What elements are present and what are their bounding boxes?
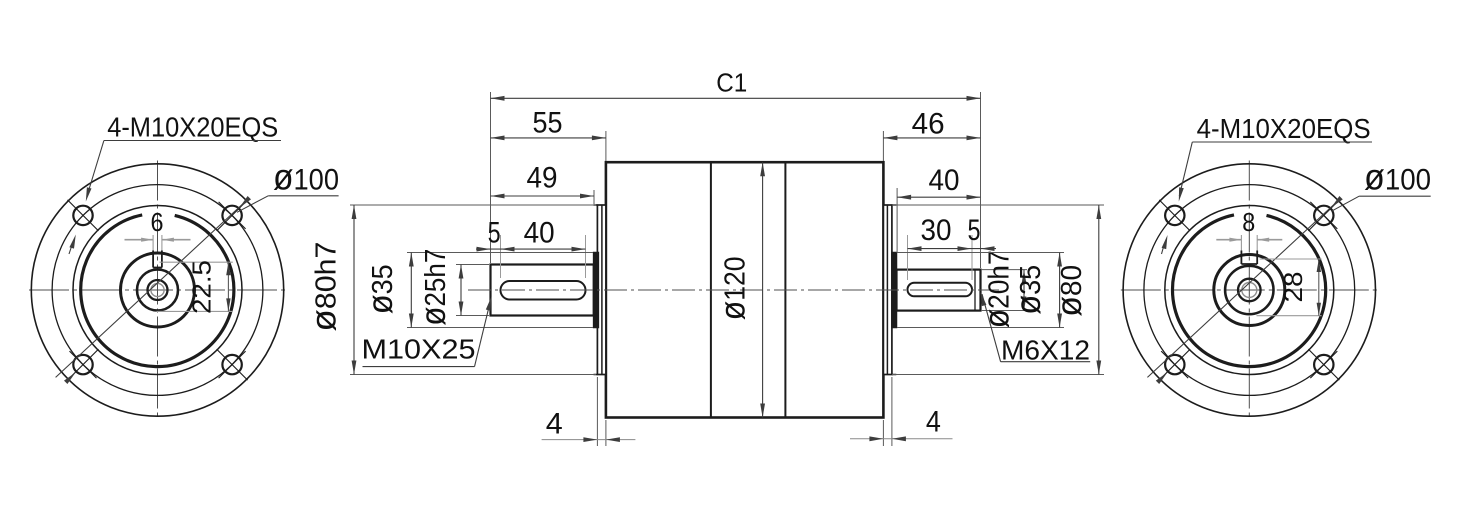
svg-text:4-M10X20EQS: 4-M10X20EQS xyxy=(107,112,278,143)
thick housing arc xyxy=(81,215,234,367)
svg-text:ø35: ø35 xyxy=(361,264,400,314)
ø100 leader R xyxy=(1332,196,1360,211)
flange view centerlines xyxy=(1121,289,1378,291)
ø100 bolt-circle diagonal dimension line (45 deg) xyxy=(1147,200,1338,377)
svg-text:4-M10X20EQS: 4-M10X20EQS xyxy=(1197,113,1371,144)
right flange ring (4mm) xyxy=(883,205,892,375)
left shaft keyway xyxy=(501,281,586,300)
right shaft chamfer line xyxy=(974,270,976,311)
M10X25 leader xyxy=(475,299,492,367)
ext keyway left end xyxy=(500,235,502,278)
ext line right shaft end xyxy=(980,92,982,268)
bolt hole lower-right xyxy=(222,355,241,374)
center tapped hole minor xyxy=(151,283,164,296)
bolt circle ø100 xyxy=(1144,185,1355,396)
small arrow below upper-left hole R xyxy=(1162,245,1165,254)
dimension ø80h7 xyxy=(350,204,596,206)
svg-text:8: 8 xyxy=(1242,207,1255,237)
ø100 leader xyxy=(237,196,268,213)
right shaft keyway xyxy=(908,283,973,297)
flange outer circle xyxy=(31,164,283,416)
right ring top lip xyxy=(892,204,896,206)
bolt hole upper-left center ticks xyxy=(1159,200,1190,231)
bolt hole lower-right center ticks xyxy=(217,349,248,380)
bolt hole lower-right xyxy=(1314,355,1333,374)
center tapped hole xyxy=(1238,279,1261,302)
dimension ø20h7 xyxy=(981,269,1027,271)
svg-text:28: 28 xyxy=(1278,272,1308,303)
left ring bottom lip xyxy=(594,374,598,376)
svg-text:C1: C1 xyxy=(716,68,747,98)
ext line left ring face xyxy=(593,190,595,204)
right shaft ø20h7 xyxy=(897,270,981,311)
label underline R xyxy=(1192,141,1372,143)
dimension C1 xyxy=(491,97,981,99)
svg-text:ø100: ø100 xyxy=(1364,157,1431,198)
label leader xyxy=(87,141,104,197)
bolt hole lower-left center ticks xyxy=(1159,349,1190,380)
small arrow below upper-left hole xyxy=(69,245,72,254)
keyway depth dimension 22.5 xyxy=(160,261,233,263)
bolt hole upper-right center ticks xyxy=(217,200,248,231)
dimension ø80 right xyxy=(892,204,1104,206)
M6X12 underline xyxy=(1001,361,1091,363)
dimension 49 xyxy=(491,195,595,197)
center tapped hole xyxy=(148,280,168,300)
keyway slot (end view) xyxy=(152,235,154,267)
bolt hole upper-right center ticks xyxy=(1308,200,1339,231)
right ring inner line xyxy=(886,205,888,375)
svg-text:ø20h7: ø20h7 xyxy=(978,250,1017,328)
left ring inner line xyxy=(601,205,603,375)
shaft circle xyxy=(137,270,178,311)
keyway slot (end view) xyxy=(1240,235,1242,263)
svg-text:ø25h7: ø25h7 xyxy=(414,249,453,326)
label underline xyxy=(104,140,281,142)
dimension ø120 xyxy=(762,162,764,417)
bolt hole upper-left xyxy=(73,206,92,225)
center tapped hole minor xyxy=(1242,283,1257,298)
label leader R xyxy=(1179,142,1192,196)
body joint line 1 xyxy=(710,162,712,417)
shaft circle xyxy=(1225,266,1273,314)
bolt hole lower-left center ticks xyxy=(68,349,99,380)
ext keyway right end R xyxy=(971,235,973,280)
dimension ø35 right xyxy=(897,252,1064,254)
svg-text:40: 40 xyxy=(524,217,555,250)
dimension ø35 left xyxy=(407,252,593,254)
left ring top lip xyxy=(594,204,598,206)
keyway width dimension 8 xyxy=(1216,239,1241,241)
flange view centerlines xyxy=(29,289,286,291)
dimension 46 xyxy=(883,137,980,139)
svg-text:55: 55 xyxy=(533,107,563,140)
left flange ring (4mm) xyxy=(597,205,606,375)
pilot circle ø80 (thin) xyxy=(73,206,242,375)
dimension 4 left xyxy=(596,377,598,446)
bolt hole upper-left center ticks xyxy=(68,200,99,231)
svg-text:6: 6 xyxy=(151,207,164,237)
ext line body left edge xyxy=(605,131,607,161)
left collar boss ø35 xyxy=(594,253,599,328)
ext keyway left end R xyxy=(907,235,909,280)
body joint line 2 xyxy=(784,162,786,417)
svg-text:M6X12: M6X12 xyxy=(1001,335,1090,366)
bolt hole upper-left xyxy=(1165,206,1184,225)
svg-text:22.5: 22.5 xyxy=(186,260,216,314)
svg-text:ø100: ø100 xyxy=(273,157,339,198)
svg-text:4: 4 xyxy=(926,406,941,439)
svg-text:ø120: ø120 xyxy=(714,256,753,320)
ext line body right edge xyxy=(882,131,884,161)
boss circle ø35 xyxy=(1214,255,1285,326)
ext keyway right end xyxy=(585,235,587,278)
svg-text:ø35: ø35 xyxy=(1009,265,1048,315)
dimension 4 right xyxy=(882,420,884,446)
bolt hole lower-left xyxy=(73,355,92,374)
M6X12 leader xyxy=(982,294,1001,362)
dimension ø25h7 xyxy=(456,264,489,266)
ø100 bolt-circle diagonal dimension line (45 deg) xyxy=(56,200,247,377)
right collar boss ø35 xyxy=(892,253,897,328)
right ring bottom lip xyxy=(892,374,896,376)
side view centerline xyxy=(468,289,999,291)
svg-text:49: 49 xyxy=(527,162,558,195)
svg-text:5: 5 xyxy=(488,217,501,250)
gearbox body (side view) xyxy=(606,162,884,417)
left shaft ø25h7 xyxy=(491,265,594,316)
svg-text:ø80: ø80 xyxy=(1050,265,1089,317)
dimension 40 right xyxy=(897,196,980,198)
svg-text:4: 4 xyxy=(546,408,563,441)
ext line right collar face xyxy=(896,188,898,253)
svg-text:40: 40 xyxy=(929,164,960,197)
bolt hole upper-right xyxy=(222,206,241,225)
thick housing arc xyxy=(1172,215,1325,367)
svg-text:ø80h7: ø80h7 xyxy=(305,242,344,332)
M10X25 underline xyxy=(363,366,475,368)
svg-text:5: 5 xyxy=(968,214,981,247)
ø100 underline xyxy=(268,195,338,197)
flange outer circle xyxy=(1123,164,1375,416)
dimension 55 xyxy=(491,137,606,139)
bolt circle ø100 xyxy=(52,185,263,396)
boss circle ø35 xyxy=(121,253,195,327)
pilot circle ø80 (thin) xyxy=(1165,206,1334,375)
ext line left shaft end xyxy=(490,92,492,263)
svg-text:M10X25: M10X25 xyxy=(362,334,476,365)
keyway width dimension 6 xyxy=(125,239,154,241)
svg-text:30: 30 xyxy=(921,214,952,247)
svg-text:46: 46 xyxy=(912,108,945,141)
ø100 underline R xyxy=(1359,195,1431,197)
keyway depth dimension 28 xyxy=(1260,258,1322,260)
bolt hole upper-right xyxy=(1314,206,1333,225)
bolt hole lower-left xyxy=(1165,355,1184,374)
bolt hole lower-right center ticks xyxy=(1308,349,1339,380)
